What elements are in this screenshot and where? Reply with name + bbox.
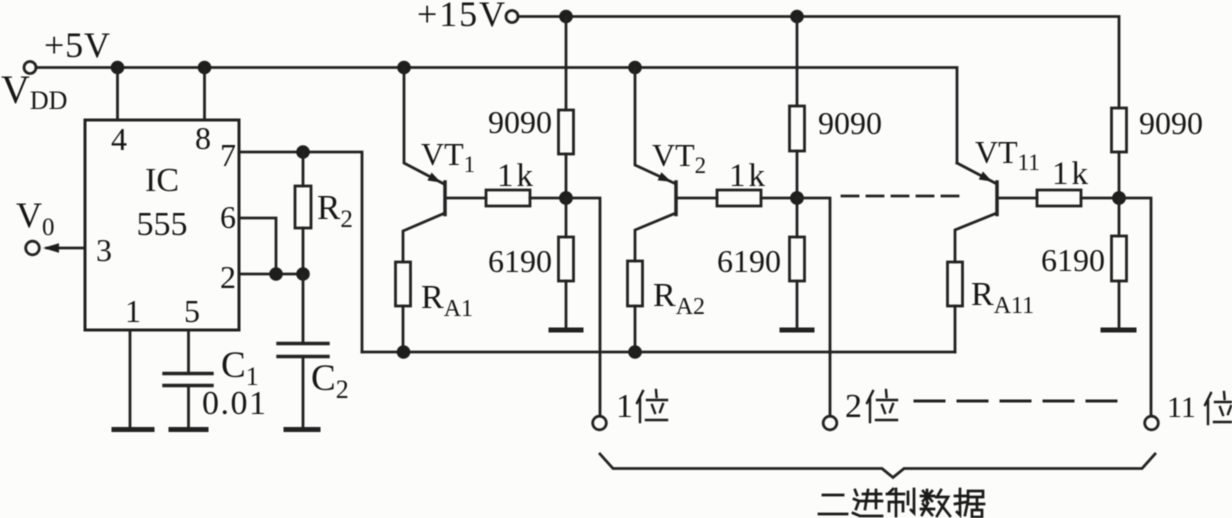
svg-text:VDD: VDD [1, 67, 67, 115]
junction on +15V at stage2 [790, 10, 804, 24]
terminal output bit1 [593, 416, 607, 430]
svg-text:9090: 9090 [818, 105, 882, 141]
svg-text:8: 8 [195, 120, 211, 156]
resistor 1k stage2 [717, 190, 761, 206]
resistor 6190 stage1 [559, 237, 574, 281]
transistor Q2 VT2 base bar [674, 182, 678, 215]
wire RA1 to bus [402, 306, 405, 352]
junction RA1 bus [397, 345, 411, 359]
junction RA2 bus [628, 345, 642, 359]
capacitor C2 [278, 344, 328, 357]
junction on +5V at VT2 emitter [628, 61, 642, 75]
wire pin2 node to C2 [302, 274, 305, 343]
wire 1k to node1 [530, 197, 566, 200]
wire node2 to output 2 [797, 198, 830, 416]
label binary data jin [853, 490, 882, 516]
wire pin3 output [47, 247, 85, 250]
svg-text:2: 2 [845, 388, 862, 425]
svg-text:3: 3 [96, 232, 112, 268]
resistor R2 [295, 186, 311, 228]
arrow on pin3 output [43, 243, 59, 252]
wire pin2 line [239, 273, 303, 276]
svg-text:6: 6 [220, 199, 236, 235]
wire VT2 base to 1k [677, 197, 717, 200]
svg-text:0.01: 0.01 [202, 385, 266, 422]
wire pin1 to ground [129, 330, 132, 428]
wire RA11 to bus corner [954, 306, 957, 352]
resistor 9090 stage2 [790, 106, 805, 151]
terminal output bit11 [1145, 416, 1159, 430]
label 2wei hanzi [867, 390, 897, 422]
wire VT1 collector [403, 213, 445, 262]
node stage1 base junction [559, 191, 573, 205]
wire 6190 stage2 top lead [796, 198, 799, 237]
wire dashed base continuation [842, 195, 960, 198]
wire VT11 collector [955, 213, 997, 262]
svg-text:11: 11 [1167, 391, 1196, 424]
wire node1 to output 1 [566, 198, 600, 416]
wire R2 bottom lead [302, 228, 305, 274]
svg-text:V0: V0 [16, 195, 55, 241]
svg-text:1k: 1k [1052, 156, 1089, 192]
wire C2 to ground [302, 357, 305, 429]
svg-text:IC: IC [145, 162, 179, 199]
wire RA2 to bus [634, 306, 637, 352]
terminal V0 [26, 241, 40, 255]
wire +15V rail [519, 17, 1120, 109]
wire 6190 stage11 top lead [1118, 198, 1121, 236]
junction on +5V at pin4 [111, 61, 125, 75]
svg-text:VT11: VT11 [975, 134, 1040, 175]
terminal +15V [506, 11, 518, 23]
svg-text:1: 1 [125, 293, 141, 329]
svg-text:6190: 6190 [717, 243, 781, 279]
ground stage2 [782, 328, 812, 333]
wire dashed output row [915, 400, 1127, 403]
svg-text:VT1: VT1 [421, 136, 475, 177]
junction on +5V at pin8 [198, 61, 212, 75]
wire 9090 stage2 top lead [796, 17, 799, 107]
ground C1 [171, 427, 206, 432]
label binary data er [819, 495, 847, 514]
wire 1k to node2 [761, 197, 797, 200]
wire pin6 line [239, 218, 276, 274]
svg-text:5: 5 [184, 293, 200, 329]
svg-text:+15V: +15V [417, 0, 505, 34]
arrow VT1 emitter [427, 173, 441, 183]
wire 9090 stage1 bottom lead [565, 154, 568, 198]
resistor 1k stage1 [486, 190, 530, 206]
junction on +5V at VT1 emitter [397, 61, 411, 75]
node stage2 base junction [790, 191, 804, 205]
resistor 9090 stage1 [559, 110, 574, 154]
wire +5V rail [37, 68, 958, 164]
svg-text:VT2: VT2 [652, 137, 706, 178]
ground stage1 [551, 328, 581, 333]
svg-text:6190: 6190 [1041, 242, 1105, 278]
transistor Q1 VT1 base bar [443, 182, 447, 215]
resistor 6190 stage11 [1112, 236, 1127, 281]
resistor 1k stage11 [1037, 190, 1081, 206]
svg-text:RA2: RA2 [653, 277, 705, 320]
svg-text:6190: 6190 [488, 243, 552, 279]
node stage11 base junction [1112, 191, 1126, 205]
svg-text:7: 7 [220, 137, 236, 173]
capacitor C1 [164, 374, 212, 386]
resistor RA2 [628, 261, 643, 306]
wire VT1 base to 1k [446, 197, 486, 200]
resistor RA11 [948, 262, 963, 306]
terminal +5V VDD [24, 62, 36, 74]
ground stage11 [1103, 328, 1134, 333]
ground pin1 [114, 427, 152, 432]
wire pin5 to C1 [187, 330, 190, 372]
arrow VT11 emitter [979, 172, 993, 182]
wire 9090 stage2 bottom lead [796, 151, 799, 198]
ground C2 [286, 427, 318, 432]
wire node11 to output 11 [1119, 198, 1151, 416]
svg-text:9090: 9090 [1139, 105, 1203, 141]
wire pin4 to +5V [116, 68, 119, 121]
wire VT11 emitter from +5V [957, 163, 995, 183]
wire 9090 stage1 top lead [565, 17, 568, 111]
svg-text:+5V: +5V [44, 25, 110, 65]
svg-text:1: 1 [616, 388, 633, 425]
svg-text:4: 4 [111, 121, 127, 157]
wire 9090 stage11 bottom lead [1118, 152, 1121, 198]
arrow VT2 emitter [658, 172, 672, 182]
resistor RA1 [396, 262, 411, 306]
svg-text:2: 2 [220, 259, 236, 295]
label binary data shu [921, 490, 950, 516]
svg-text:RA11: RA11 [971, 276, 1034, 319]
svg-text:9090: 9090 [488, 104, 552, 140]
label 11wei hanzi [1205, 392, 1232, 424]
wire pin8 to +5V [203, 68, 206, 121]
op-amp U1 IC 555 box [85, 120, 239, 330]
resistor 9090 stage11 [1112, 108, 1127, 152]
resistor 6190 stage2 [790, 237, 805, 281]
wire VT2 emitter from +5V [635, 68, 674, 184]
svg-text:RA1: RA1 [421, 279, 473, 322]
wire 6190 stage1 to ground [565, 281, 568, 328]
svg-text:R2: R2 [317, 188, 353, 233]
wire VT11 base to 1k [998, 197, 1037, 200]
wire 6190 stage2 to ground [796, 281, 799, 328]
junction on +15V at stage1 [559, 10, 573, 24]
wire VT2 collector [635, 213, 676, 261]
brace binary data [600, 454, 1155, 478]
wire R2 top lead [302, 152, 305, 186]
label 1wei hanzi [637, 390, 667, 422]
svg-text:C2: C2 [311, 358, 349, 404]
wire bottom bus [362, 351, 955, 354]
label binary data zhi [887, 489, 914, 516]
terminal output bit2 [823, 416, 837, 430]
wire 6190 stage1 top lead [565, 198, 568, 237]
transistor Q11 VT11 base bar [995, 182, 999, 215]
junction pin7 / R2 top [296, 145, 310, 159]
wire 1k to node11 [1081, 197, 1119, 200]
wire pin7 line [239, 152, 362, 352]
junction pin2/R2/C2 [296, 267, 310, 281]
svg-text:555: 555 [137, 206, 188, 243]
label binary data ju [955, 489, 984, 517]
wire 6190 stage11 to ground [1118, 281, 1121, 328]
junction pin6/pin2 [269, 267, 283, 281]
wire VT1 emitter from +5V [404, 68, 444, 185]
wire C1 to ground [187, 386, 190, 429]
